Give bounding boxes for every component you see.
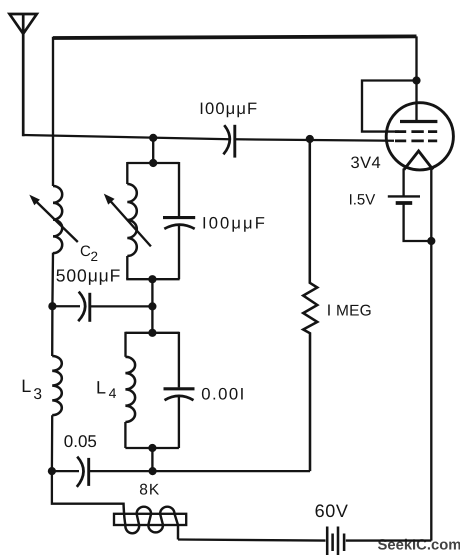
tube U1 3V4 envelope <box>386 103 453 170</box>
wire bottom run to 60V battery <box>178 540 326 541</box>
svg-text:L: L <box>96 378 106 398</box>
wire tank2 left branch bottom <box>124 422 126 448</box>
svg-text:8K: 8K <box>139 482 160 499</box>
svg-text:I00μμF: I00μμF <box>202 214 267 233</box>
svg-text:4: 4 <box>109 385 117 401</box>
svg-text:0.05: 0.05 <box>64 432 97 451</box>
wire L3 to bottom corner <box>52 415 124 504</box>
svg-text:500μμF: 500μμF <box>56 266 121 286</box>
wire 0.05 right <box>89 470 310 472</box>
wire 500uuF right <box>90 305 153 307</box>
node 500uuF right junction <box>148 302 156 310</box>
node grid line / 1MEG tap <box>306 135 314 143</box>
wire 500uuF left <box>52 305 80 307</box>
node tank1 top <box>149 159 157 167</box>
svg-text:60V: 60V <box>315 501 349 521</box>
transformer T1 core bar <box>114 514 186 525</box>
wire tank2 right branch top <box>178 332 180 388</box>
tube U1 filament caret <box>404 151 433 170</box>
wire tank1 bottom rail <box>126 278 179 280</box>
top rail wire B+ <box>53 36 417 38</box>
svg-text:I.5V: I.5V <box>349 191 376 208</box>
wire tank1 left branch bottom <box>126 256 128 279</box>
wire tank2 top rail <box>126 332 179 334</box>
variable inductor (tank1 tuning coil) <box>127 184 137 256</box>
antenna <box>10 13 37 136</box>
capacitor 500uuF curved plate <box>78 292 85 322</box>
wire tank2 left branch top <box>124 332 126 357</box>
node tank2 top <box>148 329 156 337</box>
svg-text:L: L <box>21 376 31 396</box>
node 500uuF tap left <box>48 302 56 310</box>
node 0.05 line / tank2 junction <box>149 467 157 475</box>
transformer T1 winding <box>124 503 179 540</box>
capacitor 100uuF tank1 curved plate <box>164 225 194 229</box>
node 0.05 line left <box>48 467 56 475</box>
wire antenna lead to grid line (left of C1) <box>23 135 229 139</box>
capacitor 0.001 flat plate <box>164 387 195 390</box>
svg-text:I00μμF: I00μμF <box>199 99 258 118</box>
battery B2 60V plates <box>327 527 338 556</box>
battery B1 1.5V short plate <box>396 201 413 205</box>
svg-text:2: 2 <box>91 249 99 264</box>
wire 1.5V return <box>404 203 432 241</box>
svg-text:C: C <box>80 243 91 260</box>
wire tank1 right branch bottom <box>178 225 180 280</box>
svg-text:MEG: MEG <box>336 302 372 319</box>
capacitor 0.05 flat plate <box>87 458 90 486</box>
node plate/screen junction <box>412 76 420 84</box>
node tank1 bottom <box>148 275 156 283</box>
wire tank2 bottom to 0.05 line <box>151 448 153 471</box>
wire tank1 right branch top <box>178 162 180 216</box>
resistor 1MEG <box>303 139 317 471</box>
battery B1 1.5V long plate <box>388 195 420 197</box>
wire tank1 top rail <box>127 162 179 164</box>
svg-text:3: 3 <box>33 386 42 403</box>
wire top rail left drop <box>52 37 54 186</box>
node filament return junction <box>427 237 435 245</box>
capacitor 500uuF flat plate <box>88 293 91 322</box>
svg-text:3V4: 3V4 <box>351 154 382 172</box>
wire filament right leg down to B- <box>430 168 432 541</box>
inductor L3 <box>52 356 62 415</box>
wire tank2 bottom rail <box>125 447 178 449</box>
wire 0.05 left <box>52 470 79 472</box>
wire C1 to tube grid <box>235 139 394 140</box>
wire grid line to tank1 top <box>152 138 154 163</box>
capacitor C1 100uuF coupling (curved plate) <box>223 125 229 154</box>
wire screen loop <box>362 81 417 132</box>
wire filament left leg <box>402 169 404 197</box>
capacitor 0.05 curved plate <box>77 457 84 487</box>
wire tank1 left branch top <box>126 162 128 184</box>
node grid line / tank1 tap <box>149 134 157 142</box>
inductor L4 <box>125 357 135 422</box>
wire 60V battery to right leg <box>346 539 432 541</box>
svg-text:I: I <box>327 302 331 319</box>
arrow of tank1 variable inductor <box>109 199 151 247</box>
wire C2 coil to 500uuF tap <box>51 253 54 356</box>
capacitor C1 100uuF coupling (flat plate) <box>233 125 236 158</box>
wire plate lead <box>415 36 417 121</box>
wire tank2 right branch bottom <box>178 396 180 448</box>
svg-text:0.00I: 0.00I <box>201 384 246 403</box>
capacitor 100uuF tank1 flat plate <box>163 216 195 219</box>
tube U1 screen grid dashes <box>395 130 437 133</box>
arrow of C2 variable inductor <box>35 200 78 242</box>
node tank2 bottom <box>148 444 156 452</box>
svg-text:SeekIC.com: SeekIC.com <box>378 537 460 553</box>
wire tank1 bottom to tank2 top <box>151 279 153 333</box>
variable inductor C2 (antenna coil) <box>53 186 62 253</box>
tube U1 plate bar <box>400 120 437 123</box>
capacitor 0.001 curved plate <box>165 396 194 400</box>
tube U1 control grid dashes <box>395 140 437 143</box>
